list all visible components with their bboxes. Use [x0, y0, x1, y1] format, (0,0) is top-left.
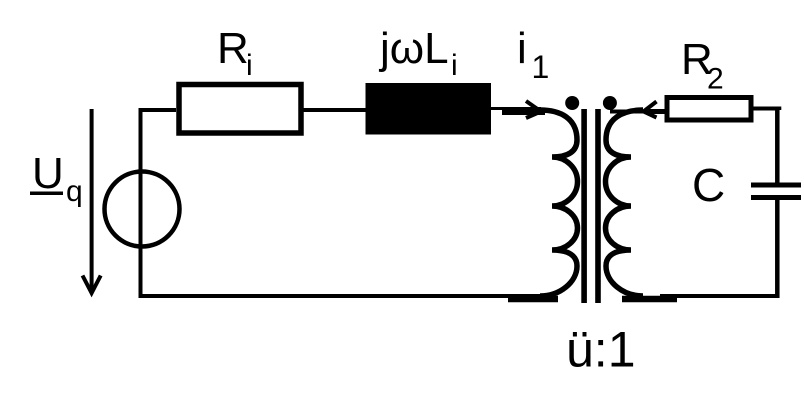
- svg-text:i: i: [517, 24, 527, 73]
- resistor R2: [667, 98, 751, 121]
- arrow: current i1: [504, 101, 541, 118]
- label Uq: [30, 149, 83, 208]
- wire: capacitor to bottom: [775, 199, 780, 298]
- svg-text:i: i: [451, 49, 458, 82]
- arrow: Uq reference direction: [83, 109, 101, 293]
- svg-text:ü:1: ü:1: [566, 322, 636, 378]
- svg-text:C: C: [692, 159, 725, 211]
- svg-text:U: U: [32, 149, 64, 198]
- arrow: current into R2: [644, 102, 677, 118]
- inductor Li (solid block): [366, 83, 492, 135]
- transformer T1 secondary winding: [606, 110, 644, 296]
- svg-text:2: 2: [707, 63, 724, 96]
- svg-text:1: 1: [532, 49, 550, 85]
- svg-text:R: R: [217, 24, 249, 73]
- capacitor C1 top plate: [751, 183, 801, 188]
- wire: bottom right from secondary to capacitor: [660, 294, 780, 298]
- label jwLi: [378, 24, 458, 82]
- label Ri: [217, 24, 253, 82]
- wire: Li to transformer primary: [491, 107, 541, 110]
- wire: right vertical down to capacitor: [775, 108, 780, 184]
- wire: bottom left from source corner to transformer primary: [139, 294, 546, 298]
- transformer primary terminal stub (bottom): [508, 296, 558, 303]
- wire: Ri to Li: [301, 108, 366, 112]
- transformer primary terminal stub (top): [502, 109, 545, 115]
- capacitor C1 bottom plate: [751, 195, 801, 200]
- svg-text:jωL: jωL: [378, 24, 449, 73]
- resistor Ri: [179, 85, 301, 134]
- transformer T1 primary winding: [540, 110, 578, 296]
- svg-text:i: i: [246, 49, 253, 82]
- transformer polarity dot (secondary): [603, 96, 617, 110]
- transformer polarity dot (primary): [565, 96, 579, 110]
- wire: secondary top to R2: [610, 110, 650, 114]
- label R2: [681, 35, 724, 96]
- transformer core line 2: [595, 109, 601, 303]
- wire: left loop (top segment to Ri and left vertical through source): [141, 110, 177, 296]
- svg-text:q: q: [66, 175, 83, 208]
- transformer secondary terminal stub (bottom): [622, 296, 677, 303]
- wire: R2 to right vertical: [753, 109, 779, 111]
- voltage source U1 circle: [105, 172, 180, 247]
- transformer core line 1: [581, 109, 587, 303]
- label i1: [517, 24, 549, 85]
